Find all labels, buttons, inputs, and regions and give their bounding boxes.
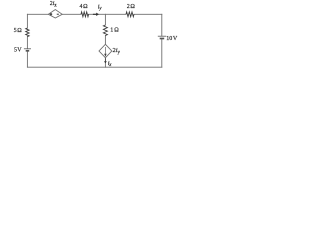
svg-text:5Ω: 5Ω	[14, 28, 23, 34]
svg-text:10V: 10V	[166, 36, 178, 42]
svg-text:iy: iy	[98, 3, 103, 11]
svg-text:2ix: 2ix	[50, 1, 57, 8]
svg-text:5V: 5V	[14, 48, 22, 54]
svg-text:2Ω: 2Ω	[127, 4, 136, 10]
svg-text:2iy: 2iy	[113, 47, 121, 55]
svg-text:4Ω: 4Ω	[80, 4, 89, 10]
svg-text:1Ω: 1Ω	[110, 28, 119, 34]
